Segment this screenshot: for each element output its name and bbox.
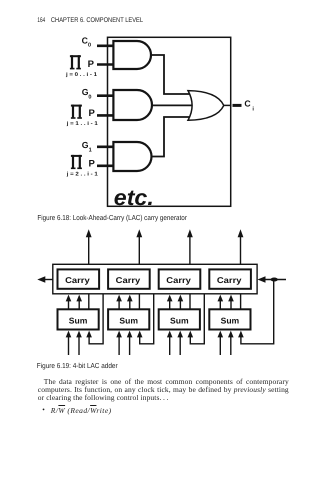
input stub G0	[97, 94, 114, 97]
input stub G1	[97, 146, 114, 149]
carry to sum line slice 2	[138, 294, 140, 310]
and-gate A1	[113, 41, 151, 69]
carry block outer box	[53, 264, 257, 294]
carry unit U3	[159, 269, 201, 288]
svg-text:Carry: Carry	[116, 275, 141, 285]
product symbol row 1	[70, 55, 81, 69]
carry output arrow 1 (top)	[86, 229, 92, 264]
carry unit U1	[58, 269, 100, 288]
sum to carry arrows slice 2	[116, 295, 132, 310]
svg-text:Carry: Carry	[65, 275, 90, 285]
sum to carry arrows slice 4	[218, 295, 234, 310]
sum to carry arrows slice 3	[167, 295, 183, 310]
carry-in wire slice 2	[140, 294, 154, 344]
svg-text:1: 1	[89, 148, 92, 154]
svg-text:Sum: Sum	[221, 315, 240, 325]
carry unit U2	[108, 269, 150, 288]
svg-text:i: i	[252, 106, 254, 113]
label C0	[82, 36, 92, 49]
carry-in wire slice 4 from external C0	[241, 280, 274, 344]
output stub Ci	[233, 104, 242, 107]
bullet item R/W	[42, 405, 45, 414]
svg-text:CHAPTER 6. COMPONENT LEVEL: CHAPTER 6. COMPONENT LEVEL	[51, 17, 143, 24]
carry-in wire slice 1	[89, 294, 103, 344]
svg-text:Sum: Sum	[119, 315, 138, 325]
sum unit S4	[209, 309, 250, 329]
svg-text:0: 0	[88, 42, 91, 48]
sum to carry arrows slice 1	[66, 295, 82, 310]
and-gate A3	[113, 142, 151, 171]
svg-text:0: 0	[88, 95, 91, 101]
svg-text:P: P	[89, 158, 96, 169]
external carry-in line	[258, 276, 287, 282]
svg-text:j = 1 . . i - 1: j = 1 . . i - 1	[66, 121, 98, 127]
product symbol row 2	[71, 105, 82, 119]
sum unit S3	[159, 309, 200, 329]
label G0	[82, 87, 92, 101]
svg-text:C: C	[244, 99, 251, 109]
carry to sum line slice 4	[240, 294, 242, 310]
or-gate O1	[188, 91, 224, 121]
label G1	[82, 140, 92, 153]
svg-text:j = 0 . . i - 1: j = 0 . . i - 1	[65, 72, 97, 78]
sum input arrows slice 3	[167, 331, 193, 355]
carry to sum line slice 3	[189, 294, 191, 310]
carry output arrow 3 (top)	[187, 229, 193, 264]
carry output arrow 2 (top)	[136, 229, 142, 264]
junction dot	[271, 278, 278, 282]
sum unit S2	[108, 309, 149, 329]
label Ci	[244, 99, 254, 113]
input stub P(j=1..i-1)	[97, 114, 114, 117]
svg-text:Carry: Carry	[166, 275, 191, 285]
wire O1 output to box edge	[224, 104, 232, 106]
carry-in wire slice 3	[190, 294, 204, 344]
outer block box	[108, 37, 231, 206]
carry output arrow 4 (top)	[238, 229, 244, 264]
svg-text:j = 2 . . i - 1: j = 2 . . i - 1	[66, 171, 98, 177]
svg-text:164: 164	[37, 17, 45, 24]
carry-out arrow (left)	[37, 276, 53, 282]
svg-text:Sum: Sum	[170, 315, 189, 325]
input stub P(j=2..i-1)	[97, 165, 114, 168]
svg-text:etc.: etc.	[114, 185, 154, 210]
input stub P(j=0..i-1)	[97, 63, 114, 66]
svg-text:P: P	[88, 59, 95, 70]
sum input arrows slice 4	[218, 331, 244, 355]
sum input arrows slice 1	[66, 331, 92, 355]
sum input arrows slice 2	[116, 331, 142, 355]
svg-text:P: P	[89, 108, 96, 119]
sum unit S1	[58, 309, 99, 329]
svg-text:Figure 6.18: Look-Ahead-Carry: Figure 6.18: Look-Ahead-Carry (LAC) carr…	[37, 213, 187, 222]
carry unit U4	[209, 269, 251, 288]
svg-text:Sum: Sum	[69, 315, 88, 325]
header text	[37, 17, 143, 24]
wire A2 output to O1 middle input	[152, 104, 198, 106]
input stub C0	[97, 44, 114, 47]
product symbol row 3	[71, 155, 82, 169]
svg-text:Carry: Carry	[217, 275, 242, 285]
carry to sum line slice 1	[88, 294, 90, 310]
and-gate A2	[113, 90, 152, 120]
body paragraph	[38, 378, 289, 402]
wire A3 output to O1 bottom input	[151, 117, 195, 157]
wire A1 output to O1 top input	[151, 55, 195, 94]
svg-text:Figure 6.19: 4-bit LAC adder: Figure 6.19: 4-bit LAC adder	[37, 361, 118, 370]
